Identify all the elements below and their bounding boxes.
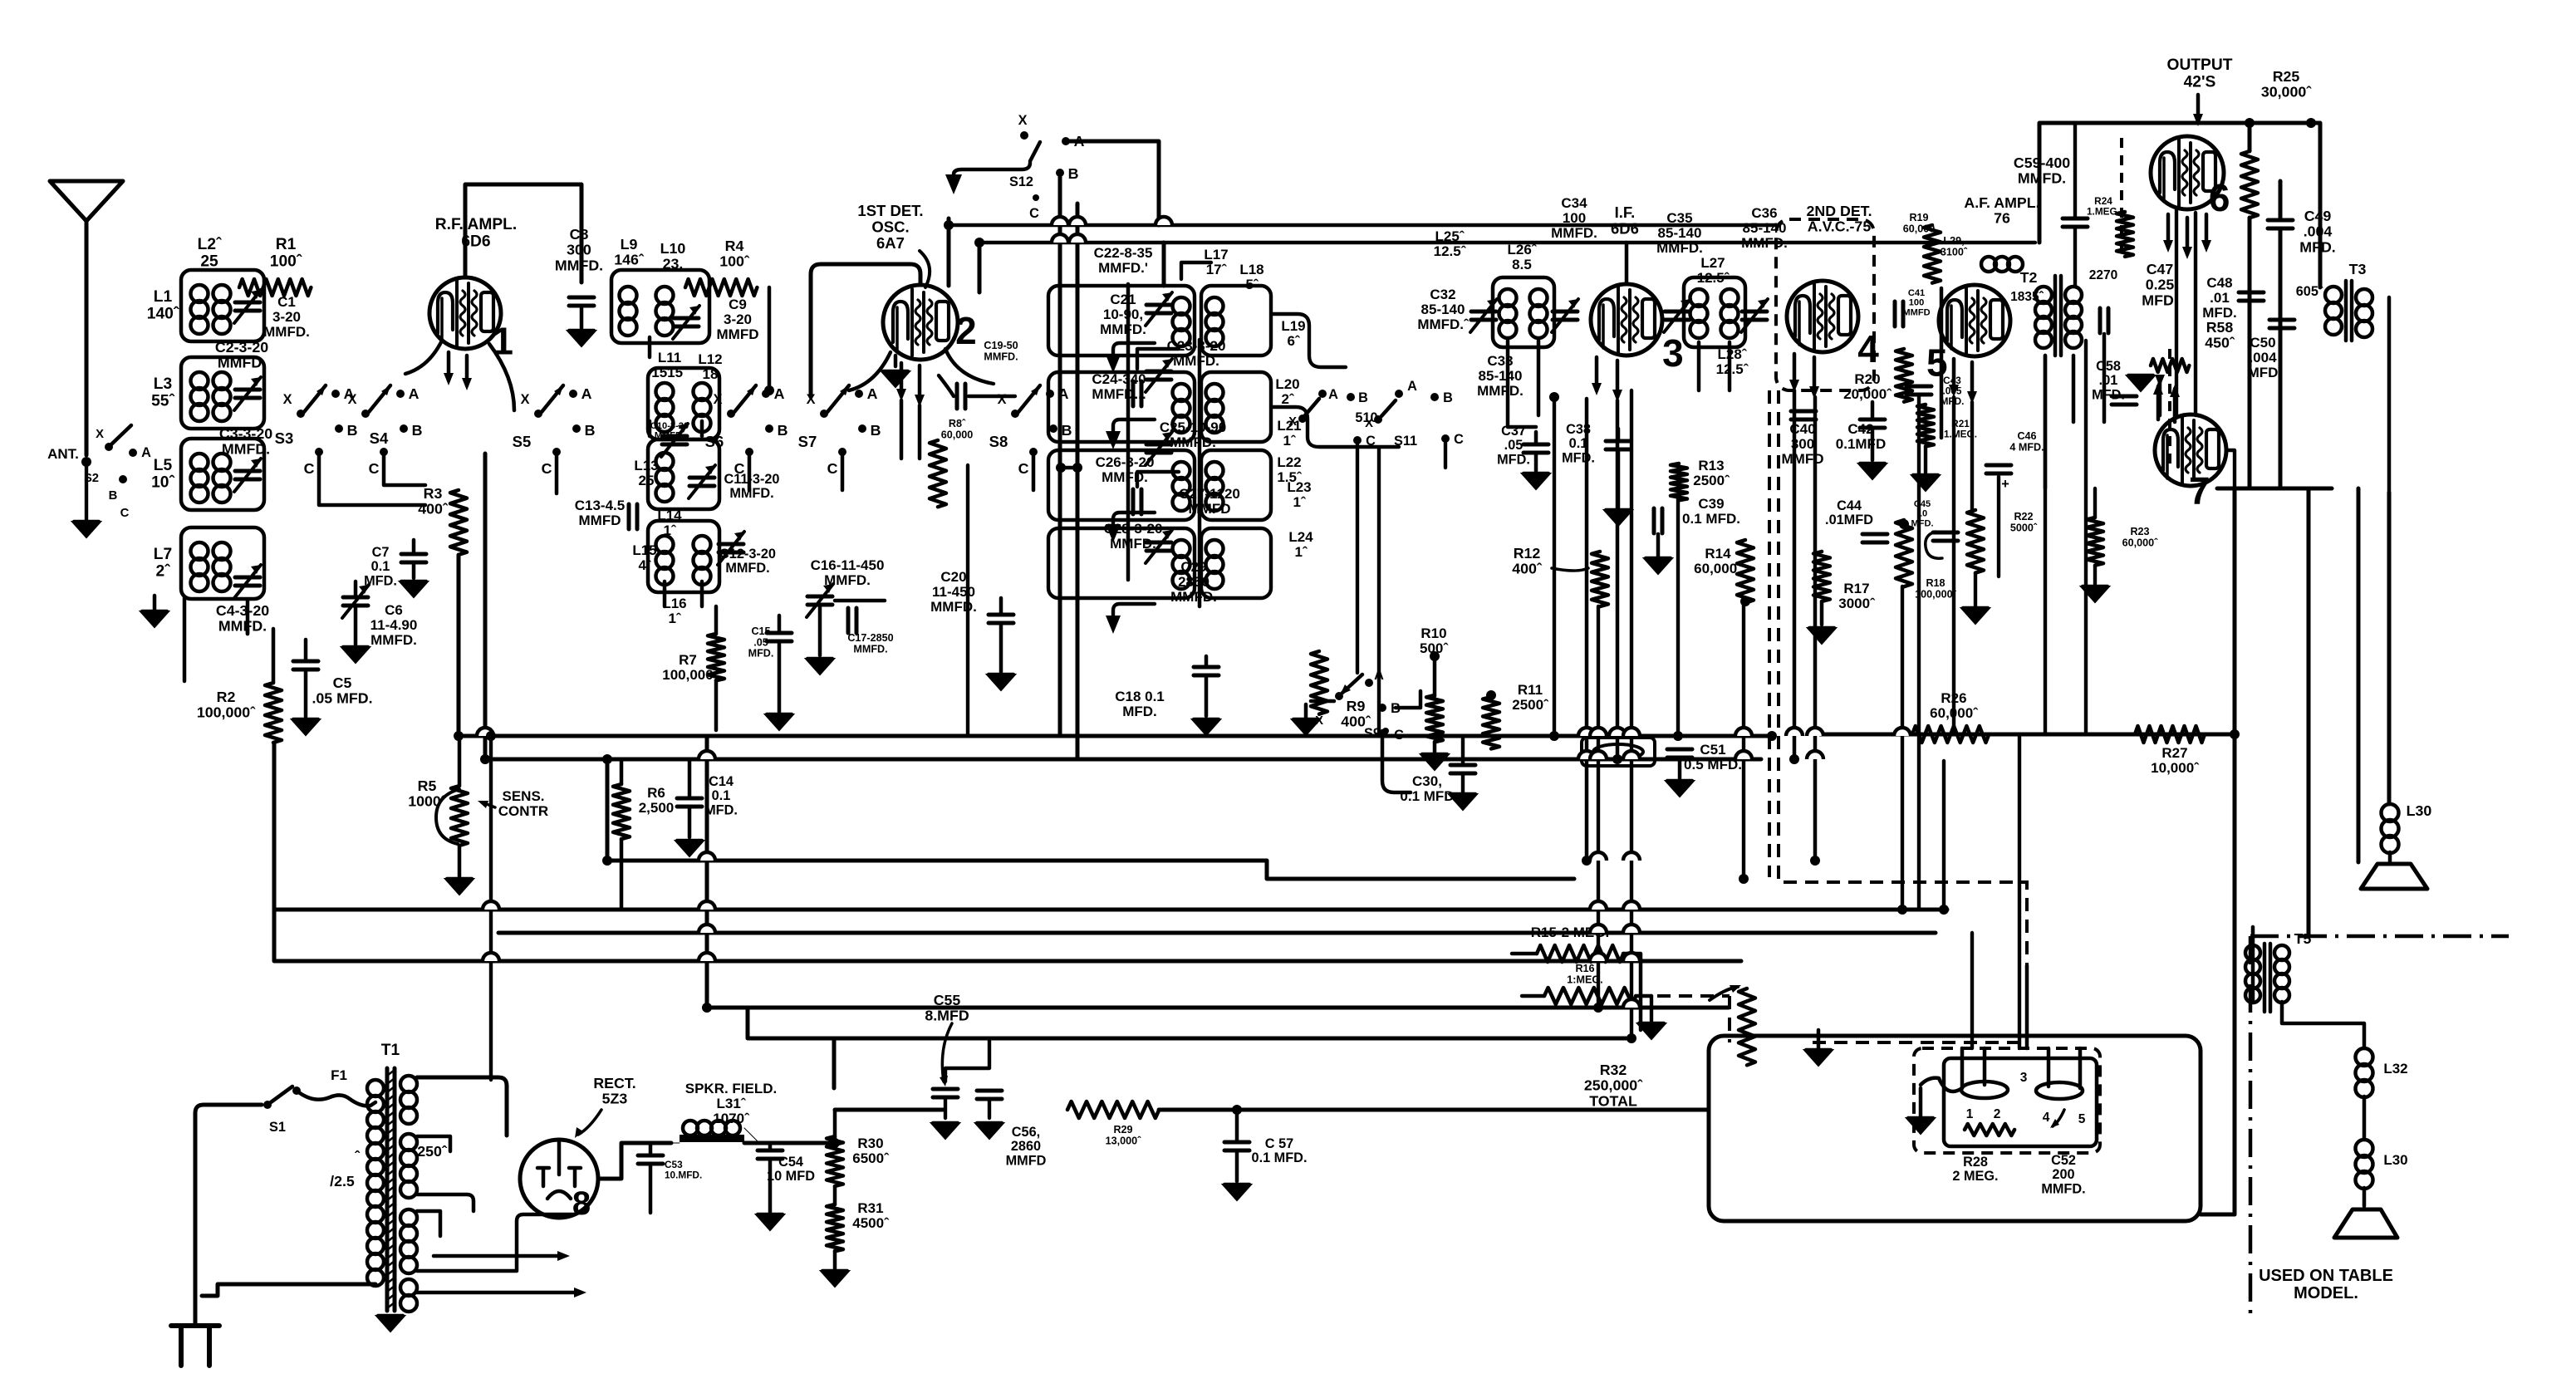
svg-text:R9: R9 (1347, 698, 1366, 714)
label C42 0.1MFD (1836, 421, 1886, 452)
capacitor C48 (2239, 292, 2264, 301)
svg-text:X: X (1288, 415, 1297, 429)
resistor R10 (1426, 695, 1443, 742)
wire loop row L15/L16 (648, 521, 719, 592)
svg-text:2ND DET.: 2ND DET. (1806, 203, 1872, 219)
svg-text:C24-340: C24-340 (1092, 371, 1146, 387)
label C38 0.1 MFD. (1562, 422, 1595, 465)
svg-text:400ˆ: 400ˆ (418, 501, 449, 517)
svg-text:8.5: 8.5 (1512, 257, 1532, 272)
label C9 3-20 MMFD (717, 297, 759, 342)
svg-text:C3-3-20: C3-3-20 (219, 425, 272, 442)
svg-text:R14: R14 (1705, 546, 1731, 562)
wire tube5/T2 bottom (2045, 334, 2104, 488)
svg-text:L12: L12 (698, 351, 722, 367)
trimmer capacitor C34 (1552, 299, 1578, 332)
svg-text:R2: R2 (217, 689, 236, 705)
wire jack gnd (1921, 1078, 1962, 1118)
label SENS. CONTR (498, 788, 548, 819)
svg-text:X: X (998, 392, 1007, 407)
svg-text:T2: T2 (2020, 269, 2038, 286)
svg-text:/2.5: /2.5 (330, 1173, 355, 1189)
label L30 (upper) (2407, 802, 2432, 819)
svg-text:450ˆ: 450ˆ (2205, 335, 2235, 351)
label R14 60,000 (1694, 546, 1743, 576)
svg-text:C: C (369, 460, 380, 477)
wire R29 to C57 to box (1159, 1108, 1709, 1112)
inductor L7 (191, 542, 209, 591)
svg-text:MMFD.: MMFD. (729, 486, 773, 501)
wire loop row L9/L10 (611, 270, 709, 343)
svg-text:A: A (1374, 668, 1384, 683)
wire C16/C17 (820, 601, 885, 655)
svg-text:6ˆ: 6ˆ (1287, 333, 1300, 349)
label C4-3-20 (216, 602, 269, 635)
label R22 5000 (2010, 511, 2038, 533)
resistor R5 (pot) (451, 786, 468, 846)
svg-text:MMFD.: MMFD. (222, 441, 270, 458)
svg-text:MFD.: MFD. (2142, 292, 2177, 308)
wire vertical R18 bottom (1901, 586, 1904, 910)
svg-text:2850: 2850 (1178, 574, 1209, 590)
label R29 13,000 (1106, 1124, 1142, 1146)
capacitor C39 (1654, 508, 1662, 533)
svg-text:R30: R30 (857, 1135, 883, 1151)
wire R32 wiper arrow (1710, 987, 1738, 1000)
svg-text:3: 3 (1662, 331, 1684, 375)
svg-text:MMFD.: MMFD. (555, 257, 603, 273)
tube3 cathode lead 2 (1612, 361, 1622, 402)
svg-text:L27: L27 (1700, 255, 1725, 271)
capacitor C37 (1524, 444, 1548, 453)
svg-text:S5: S5 (513, 433, 532, 450)
T2 primary (2035, 287, 2052, 348)
label R9 400 (1341, 698, 1371, 730)
label C23-3-20 MMFD. (1167, 338, 1226, 369)
wire bus 1123 (498, 931, 1936, 935)
svg-text:C4-3-20: C4-3-20 (216, 602, 269, 619)
inductor L23 (1173, 540, 1190, 589)
ground (R21) (1911, 475, 1940, 491)
wire tube1 lead left (405, 341, 442, 374)
label L20 2 (1275, 376, 1299, 407)
wire vertical to power transformer (489, 736, 493, 1080)
svg-text:6500ˆ: 6500ˆ (852, 1150, 890, 1166)
wire rect label arrow (578, 1110, 601, 1135)
svg-text:1.MEG.: 1.MEG. (2087, 205, 2120, 217)
svg-text:10,000ˆ: 10,000ˆ (2151, 760, 2200, 776)
label C3-3-20 (219, 425, 272, 458)
ground (jack) (1906, 1118, 1935, 1134)
ground (C6) (341, 647, 370, 663)
trimmer capacitor C4 (234, 565, 261, 598)
svg-text:X: X (714, 392, 723, 407)
label C10-3-20 MMFD. (650, 421, 689, 441)
wire C6 (354, 581, 358, 645)
svg-text:L22: L22 (1277, 454, 1301, 470)
wire T1 sec3 (417, 1211, 573, 1271)
wire IF2 bottom leads (1699, 342, 1730, 390)
svg-text:MFD.: MFD. (364, 573, 397, 588)
label C41 100 MMFD (1902, 288, 1930, 317)
svg-text:.01: .01 (2099, 373, 2118, 388)
wire tube2 ground stem (894, 356, 898, 366)
label USED ON TABLE MODEL. (2259, 1267, 2393, 1302)
svg-text:C2-3-20: C2-3-20 (215, 339, 268, 356)
wire tube1 grid cap (465, 184, 581, 282)
svg-text:B: B (585, 422, 596, 439)
svg-text:R13: R13 (1698, 458, 1724, 473)
shield around tube 4 (dashed) (1776, 219, 1874, 390)
inductor L9 (620, 287, 637, 336)
svg-text:L1: L1 (154, 288, 173, 306)
label C20 11-450 MMFD. (930, 569, 977, 615)
resistor R9 (1311, 651, 1327, 714)
wire IF1 bottom leads (1508, 341, 1538, 427)
svg-text:MMFD: MMFD (1902, 307, 1930, 317)
wire left rail (184, 598, 248, 681)
svg-text:C45: C45 (1914, 499, 1931, 509)
label L24 1 (1288, 529, 1313, 560)
wire S9 stem (1306, 701, 1334, 719)
svg-text:X: X (348, 392, 357, 407)
svg-text:8: 8 (572, 1185, 591, 1222)
label C35 85-140 MMFD. (1656, 210, 1703, 256)
ground (C8) (567, 331, 596, 346)
svg-text:1835ˆ: 1835ˆ (2010, 290, 2044, 304)
ground (R31) (821, 1271, 849, 1287)
choke L32 (2356, 1048, 2373, 1097)
trimmer capacitor C1 (234, 290, 261, 323)
svg-text:A: A (774, 385, 785, 402)
wire R6 (620, 759, 624, 910)
svg-text:C15: C15 (751, 625, 770, 637)
tube 8 rectifier 5Z3 (520, 1140, 598, 1218)
AVC bus (dashed) (1657, 390, 2027, 1042)
ground (C20) (987, 674, 1015, 690)
svg-text:2500ˆ: 2500ˆ (1693, 473, 1730, 488)
wire R4 column down (768, 287, 772, 390)
wire heater bus down (832, 1038, 837, 1088)
wire osc bank frame (1061, 262, 1211, 487)
svg-text:MMFD.: MMFD. (1170, 589, 1217, 605)
svg-text:L19: L19 (1281, 318, 1305, 334)
label SPKR. FIELD. L31 1070 (685, 1081, 778, 1126)
label L10 23 (660, 240, 686, 272)
label L22 1.5 (1277, 454, 1303, 485)
svg-text:5ˆ: 5ˆ (1245, 277, 1259, 292)
trimmer capacitor C11 (689, 465, 715, 498)
wire vertical to jack box 2 (2018, 734, 2021, 1048)
T3 primary (2325, 287, 2342, 335)
label L2 25 (198, 236, 222, 270)
label 2270 (2089, 268, 2117, 282)
wire L31 (671, 1128, 759, 1143)
svg-text:C48: C48 (2206, 275, 2232, 291)
svg-text:4: 4 (2043, 1111, 2050, 1125)
capacitor C56 (977, 1091, 1002, 1099)
T5 primary (2245, 945, 2260, 1003)
switch S3 (275, 385, 358, 477)
ground (C39) (1644, 558, 1672, 574)
label T3 (2349, 261, 2367, 277)
T1 secondary winding 4 (400, 1279, 417, 1312)
svg-text:R10: R10 (1420, 625, 1446, 641)
svg-text:2ˆ: 2ˆ (1281, 391, 1294, 407)
label C17-2850 MMFD. (847, 632, 893, 655)
wire loop row L21 (1048, 450, 1195, 520)
svg-text:6A7: 6A7 (876, 234, 905, 252)
svg-text:1070ˆ: 1070ˆ (713, 1111, 750, 1126)
svg-text:C: C (120, 507, 130, 520)
label R6 2,500 (639, 785, 675, 816)
wire R2 top (272, 629, 276, 683)
resistor R23 (2087, 517, 2103, 566)
svg-text:MMFD.: MMFD. (853, 643, 887, 655)
svg-text:S7: S7 (798, 433, 817, 450)
phone jack (1582, 738, 1655, 766)
label R28 2 MEG. (1952, 1155, 1998, 1184)
T5 secondary (2274, 945, 2289, 1003)
wire C46 col (1997, 477, 2000, 576)
label C24-340 MMFD. (1092, 371, 1146, 402)
svg-text:250ˆ: 250ˆ (417, 1143, 448, 1160)
label C48 .01 MFD. (2202, 275, 2237, 321)
svg-text:7: 7 (2189, 469, 2210, 513)
svg-text:A: A (867, 385, 878, 402)
label C43 .005 MFD. (1941, 375, 1965, 407)
svg-text:R11: R11 (1518, 682, 1543, 698)
switch S11 (1365, 379, 1464, 449)
tube 1 R.F. amplifier 6D6 (429, 277, 501, 349)
capacitor C53 (638, 1155, 663, 1164)
svg-text:C8: C8 (570, 226, 589, 243)
svg-text:C29: C29 (1180, 559, 1206, 575)
svg-text:MFD.: MFD. (1122, 704, 1157, 719)
svg-text:100ˆ: 100ˆ (719, 253, 750, 270)
wire box bottom to vertical (2201, 1213, 2235, 1217)
label C18 0.1 MFD. (1115, 689, 1165, 719)
svg-text:R25: R25 (2273, 68, 2300, 85)
trimmer capacitor C3 (234, 459, 261, 492)
label C53 10.MFD. (665, 1159, 702, 1180)
label R10 500 (1420, 625, 1449, 656)
svg-text:10-90,: 10-90, (1103, 307, 1143, 322)
svg-text:MMFD.: MMFD. (930, 599, 977, 615)
resistor R4 (685, 279, 757, 296)
ground (antenna) (72, 522, 101, 537)
svg-text:C30,: C30, (1412, 773, 1442, 789)
label C2-3-20 (215, 339, 268, 371)
wire S10/S11 drops (1357, 443, 1445, 736)
wire R15/R16 junction (1650, 996, 1653, 1021)
label L29 3100 (1941, 235, 1968, 258)
svg-text:C58: C58 (2096, 359, 2121, 374)
wire bus (osc A) (946, 223, 1775, 227)
svg-text:L30: L30 (2383, 1152, 2407, 1168)
wire IF1 can (1493, 277, 1554, 347)
capacitor C47 coupling (2100, 308, 2108, 333)
heater lead arrow 2 (417, 1291, 580, 1295)
svg-text:6D6: 6D6 (1611, 220, 1639, 238)
ground arrow (S12) (945, 174, 962, 194)
svg-text:B: B (412, 422, 423, 439)
svg-text:R1: R1 (276, 236, 297, 253)
capacitor C45 (1933, 532, 1958, 541)
svg-text:140ˆ: 140ˆ (147, 305, 179, 322)
svg-text:C25-10-90: C25-10-90 (1160, 419, 1226, 435)
label C19-50 MMFD. (984, 340, 1018, 362)
ground (C5) (292, 719, 320, 735)
wire B+ line to R29 (835, 1108, 943, 1112)
wire tube7 bottom bus (2217, 487, 2332, 491)
switch S8 (989, 385, 1072, 477)
svg-text:MMFD.: MMFD. (218, 355, 266, 371)
chassis box (bottom right) (1709, 1036, 2201, 1221)
inductor L29 (1981, 257, 2023, 272)
label L11 1515 (651, 350, 689, 380)
resistor R20 (1896, 349, 1912, 402)
wire L31 to R30 (744, 1141, 835, 1145)
tube4 cathode lead (1789, 354, 1799, 392)
label C56 2860 MMFD (1006, 1125, 1047, 1168)
label C25-10-90 MMFD. (1160, 419, 1226, 450)
divider (dash-dot) (2250, 936, 2509, 1317)
svg-text:L24: L24 (1288, 529, 1313, 545)
tube 4 2nd detector A.V.C. 75 (1787, 281, 1858, 352)
resistor R19 (1924, 225, 1941, 283)
svg-text:1ˆ: 1ˆ (1293, 494, 1306, 510)
wire loop row L13 (648, 439, 719, 509)
wire C55/C56 tops (945, 1038, 989, 1118)
label C51 0.5 MFD. (1684, 742, 1742, 773)
label R24 1.MEG. (2087, 195, 2120, 217)
svg-text:L32: L32 (2383, 1061, 2407, 1077)
svg-text:R32: R32 (1600, 1062, 1627, 1078)
ground (R23) (2081, 586, 2109, 602)
IF transformer coil L28 (1721, 289, 1739, 338)
svg-text:1000ˆ: 1000ˆ (408, 793, 447, 810)
svg-text:S12: S12 (1009, 174, 1033, 189)
wire C55 arrow (942, 1023, 952, 1082)
jack contact 4-5 (2036, 1082, 2083, 1099)
svg-text:.01: .01 (2210, 290, 2230, 306)
resistor R1 (239, 279, 311, 296)
svg-text:1ˆ: 1ˆ (1283, 433, 1296, 449)
svg-text:85-140: 85-140 (1479, 368, 1523, 384)
svg-text:S3: S3 (275, 429, 294, 447)
IF transformer coil L26 (1530, 289, 1548, 338)
tube7 up arrows (2153, 382, 2180, 422)
label T2 (2020, 269, 2038, 286)
label L28 12.5 (1716, 346, 1749, 377)
svg-text:3000ˆ: 3000ˆ (1838, 596, 1876, 611)
svg-text:B: B (871, 422, 881, 439)
svg-text:C26-3-20: C26-3-20 (1096, 454, 1155, 470)
tube 3 I.F. 6D6 (1591, 284, 1662, 356)
svg-text:12.5ˆ: 12.5ˆ (1716, 361, 1749, 377)
wire tube3 drops (1587, 399, 1617, 861)
wire S12 C down (1076, 204, 1080, 759)
label C37 .05 MFD. (1497, 424, 1530, 467)
wire vertical R26 (1942, 761, 1945, 910)
tube5 cathode lead (1949, 359, 1959, 397)
wire C37 (1534, 432, 1538, 472)
label C1 3-20 (263, 294, 310, 340)
svg-text:A.F. AMPL.: A.F. AMPL. (1964, 194, 2039, 211)
wire R30/R31 (833, 1110, 837, 1269)
label C6 11-4.90 (370, 602, 418, 648)
wire vertical to jack box (1970, 933, 1974, 1048)
wire tube2 lead right (945, 349, 994, 384)
label L19 6 (1281, 318, 1305, 349)
capacitor C57 (1224, 1142, 1249, 1150)
svg-text:R18: R18 (1926, 577, 1945, 589)
svg-text:L10: L10 (660, 240, 686, 257)
svg-text:MMFD.: MMFD. (1173, 353, 1219, 369)
inductor L15 (656, 536, 674, 585)
svg-text:MMFD.: MMFD. (725, 561, 769, 576)
svg-text:S1: S1 (269, 1120, 286, 1135)
svg-text:A: A (409, 385, 420, 402)
svg-text:4 MFD.: 4 MFD. (2009, 441, 2044, 453)
trimmer capacitor C9 (673, 306, 699, 339)
svg-text:B: B (1062, 422, 1072, 439)
svg-text:MMFD: MMFD (1189, 501, 1231, 517)
svg-text:1ˆ: 1ˆ (668, 611, 681, 626)
label R.F. AMPL. 6D6 (435, 216, 517, 250)
wire loop row L22 (1201, 450, 1271, 520)
label 1835 (2010, 290, 2044, 304)
resistor R24 (2117, 212, 2133, 257)
ground (R17) (1808, 628, 1836, 644)
svg-text:8.MFD: 8.MFD (925, 1008, 969, 1024)
svg-text:MMFD.ˆ: MMFD.ˆ (1417, 316, 1470, 332)
label R4 100 (719, 238, 750, 270)
capacitor C8 (569, 297, 594, 306)
svg-text:55ˆ: 55ˆ (151, 392, 174, 410)
svg-text:MMFD.: MMFD. (1170, 434, 1216, 450)
inductor L4 (213, 372, 231, 421)
svg-text:R22: R22 (2014, 511, 2033, 522)
svg-text:S8: S8 (989, 433, 1008, 450)
svg-text:5: 5 (2078, 1112, 2086, 1126)
wire rectifier output (598, 1143, 671, 1179)
svg-text:C23-3-20: C23-3-20 (1167, 338, 1226, 354)
svg-text:MMFD.: MMFD. (2041, 1181, 2085, 1196)
label L21 1 (1277, 418, 1301, 449)
wire loop row L23 (1048, 528, 1195, 598)
svg-text:C5: C5 (333, 674, 352, 691)
wire T5 connections (2253, 927, 2364, 1048)
svg-text:MMFD.: MMFD. (263, 324, 310, 340)
label A.F. AMPL. 76 (1964, 194, 2039, 227)
svg-text:400ˆ: 400ˆ (1512, 561, 1543, 577)
svg-text:TOTAL: TOTAL (1589, 1092, 1637, 1109)
tube 2 1st detector oscillator 6A7 (883, 285, 958, 360)
svg-text:605ˆ: 605ˆ (2296, 284, 2323, 299)
svg-text:T1: T1 (381, 1042, 400, 1059)
svg-text:MFD.: MFD. (1911, 518, 1933, 528)
wire bus 1250 (748, 1008, 1628, 1038)
wire IF2 can (1684, 277, 1745, 347)
svg-text:100: 100 (1909, 298, 1925, 308)
resistor R22 (1967, 510, 1984, 573)
svg-text:R58: R58 (2206, 319, 2234, 336)
svg-text:MMFD.: MMFD. (1110, 536, 1156, 552)
svg-text:F1: F1 (331, 1067, 347, 1083)
resistor R16 (1544, 988, 1636, 1004)
